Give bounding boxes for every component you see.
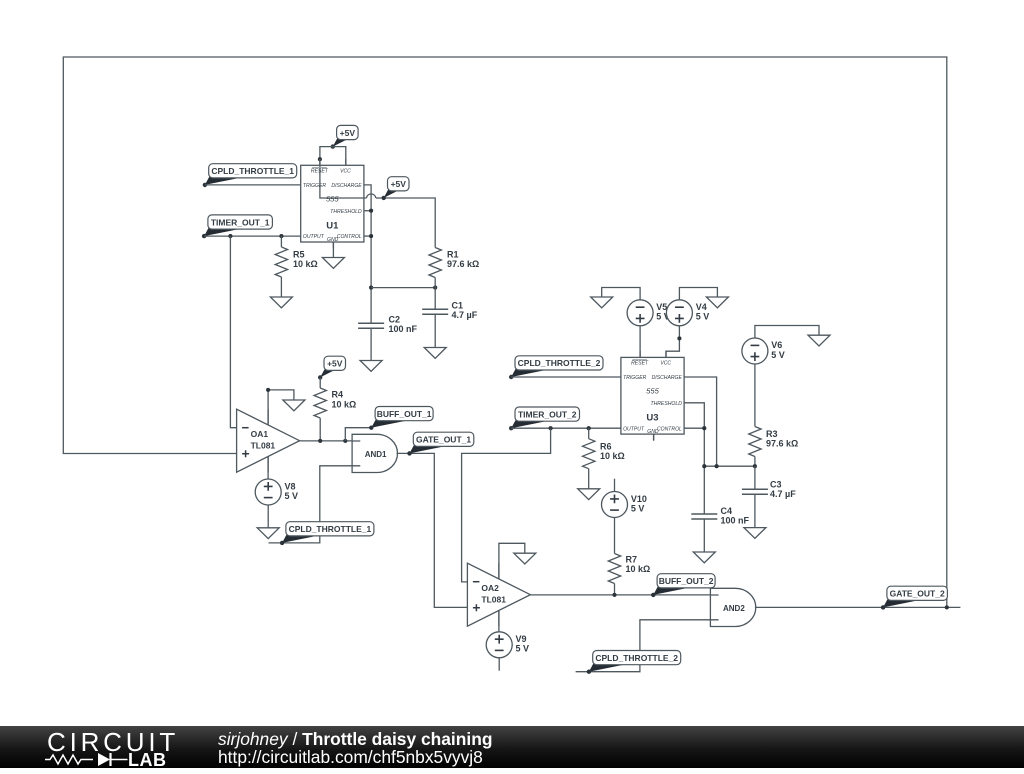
wire V5 to U3 RESET (639, 326, 641, 358)
wire U3 DISCHARGE down (684, 377, 717, 466)
svg-text:OA2: OA2 (481, 583, 499, 593)
svg-text:R7: R7 (626, 554, 638, 564)
wire U1 DISCHARGE to C2 (364, 185, 371, 323)
voltage source V10 (602, 492, 628, 518)
wire CPLD_THROTTLE_1 to AND1 input 2 (269, 466, 353, 543)
flag CPLD_THROTTLE_1 (AND1 input) (280, 522, 374, 545)
svg-text:100 nF: 100 nF (721, 516, 750, 526)
wire junction row (704, 465, 755, 467)
svg-text:4.7 µF: 4.7 µF (770, 489, 796, 499)
flag GATE_OUT_1 (407, 432, 474, 455)
svg-text:97.6 kΩ: 97.6 kΩ (766, 439, 798, 449)
svg-text:TRIGGER: TRIGGER (303, 183, 327, 189)
node gate2 loop junction (945, 605, 949, 609)
svg-text:AND1: AND1 (365, 450, 387, 459)
wire +5V net to R1 top (376, 198, 435, 248)
wire V5 top to ground (602, 288, 640, 300)
resistor R7 (608, 554, 620, 584)
node BUFF_OUT_2 anchor junction (651, 593, 655, 597)
svg-text:OUTPUT: OUTPUT (623, 426, 645, 432)
wire V9 bottom stub (498, 658, 500, 671)
wire OA1 V- to V8 (267, 456, 269, 479)
ground V6 (808, 335, 830, 346)
wire OA2 V- to V9 (498, 610, 500, 631)
label V4 value (696, 302, 710, 322)
wire R6 top (588, 428, 590, 439)
capacitor C1 (422, 309, 448, 314)
wire OA1 output to AND1 (300, 440, 353, 442)
wire U1 THRESHOLD stub (364, 210, 371, 212)
wire C2/R1 link (371, 287, 435, 289)
wire feedback loop GATE_OUT_2 to OA1 + input (63, 57, 947, 607)
svg-text:C1: C1 (452, 300, 464, 310)
svg-text:U3: U3 (646, 412, 658, 423)
wire U3 output net (511, 427, 621, 429)
label V5 value (656, 302, 670, 322)
wire OA2 V+ to ground (499, 543, 525, 579)
svg-text:5 V: 5 V (285, 491, 299, 501)
capacitor C2 (358, 323, 384, 328)
svg-text:5 V: 5 V (696, 312, 710, 322)
svg-text:DISCHARGE: DISCHARGE (331, 183, 362, 189)
label R7 value (626, 554, 651, 574)
svg-text:CONTROL: CONTROL (657, 426, 682, 432)
flag GATE_OUT_2 (881, 586, 948, 609)
flag TIMER_OUT_2 (509, 407, 580, 430)
wire U3 CONTROL stub (684, 427, 704, 429)
svg-text:10 kΩ: 10 kΩ (293, 259, 318, 269)
wire R4 bottom (319, 418, 321, 441)
svg-text:R6: R6 (600, 442, 612, 452)
svg-text:5 V: 5 V (516, 644, 530, 654)
node R5 junction (279, 234, 283, 238)
svg-text:10 kΩ: 10 kΩ (600, 451, 625, 461)
ground U1 GND (322, 258, 344, 269)
svg-text:LAB: LAB (128, 750, 167, 769)
ground C4 (693, 552, 715, 563)
svg-text:DISCHARGE: DISCHARGE (652, 375, 683, 381)
svg-text:CPLD_THROTTLE_2: CPLD_THROTTLE_2 (518, 358, 601, 368)
wire V6 top to ground (755, 326, 819, 339)
label C2 value (389, 315, 418, 335)
wire U3 GND stub (653, 434, 655, 441)
svg-text:+5V: +5V (327, 359, 343, 369)
wire AND2 output GATE_OUT_2 (755, 606, 961, 608)
node V4 wire junction (677, 336, 681, 340)
svg-text:V8: V8 (285, 481, 296, 491)
label C4 value (721, 506, 750, 526)
ground OA1 power (283, 400, 305, 411)
wire V10 to R7 (614, 518, 616, 554)
wire V10 top stub (614, 479, 616, 492)
wire V6 to R3 (754, 364, 756, 427)
wire +5V to R4 (319, 377, 321, 388)
svg-text:CPLD_THROTTLE_2: CPLD_THROTTLE_2 (595, 653, 678, 663)
svg-text:GATE_OUT_1: GATE_OUT_1 (416, 435, 471, 445)
flag CPLD_THROTTLE_2 (AND2 input) (587, 651, 681, 674)
svg-text:4.7 µF: 4.7 µF (452, 310, 478, 320)
wire C2 bottom to ground (370, 328, 372, 360)
wire +5V to U1 VCC (333, 147, 346, 166)
resistor R5 (275, 247, 287, 277)
svg-text:THRESHOLD: THRESHOLD (650, 401, 682, 407)
label R6 value (600, 442, 625, 462)
svg-text:U1: U1 (326, 220, 339, 231)
AND gate AND1 (352, 434, 397, 472)
svg-text:C4: C4 (721, 506, 733, 516)
label R1 value (447, 249, 479, 269)
flag CPLD_THROTTLE_2 (U3 trigger) (509, 356, 603, 379)
CircuitLab logo (44, 727, 224, 774)
svg-text:100 nF: 100 nF (389, 324, 418, 334)
voltage source V6 (742, 338, 768, 364)
wire CPLD_THROTTLE_2 to AND2 input 2 (576, 620, 711, 672)
op-amp OA1 (237, 409, 300, 472)
label R3 value (766, 429, 798, 449)
svg-text:CONTROL: CONTROL (337, 234, 362, 240)
svg-text:C3: C3 (770, 479, 782, 489)
ground C3 (744, 528, 766, 539)
wire R3 bottom (754, 457, 756, 467)
svg-text:OUTPUT: OUTPUT (303, 234, 325, 240)
svg-text:VCC: VCC (660, 361, 671, 367)
flag TIMER_OUT_1 (202, 215, 272, 238)
svg-text:555: 555 (646, 387, 659, 396)
svg-text:V9: V9 (516, 634, 527, 644)
footer bar (0, 726, 1024, 768)
node BUFF_OUT_1 branch (343, 439, 347, 443)
label V9 value (516, 634, 530, 654)
node thresh2-C4 junction (702, 464, 706, 468)
resistor R3 (749, 427, 761, 457)
svg-text:TIMER_OUT_1: TIMER_OUT_1 (211, 217, 270, 227)
op-amp OA2 (467, 563, 530, 626)
svg-text:10 kΩ: 10 kΩ (332, 399, 357, 409)
op-amp U3 555 timer (621, 351, 684, 441)
svg-text:RESET: RESET (311, 169, 329, 175)
wire OA2 output to AND2 (530, 594, 710, 596)
label V6 value (771, 340, 785, 360)
svg-text:TIMER_OUT_2: TIMER_OUT_2 (518, 409, 577, 419)
ground OA2 power (514, 553, 536, 564)
capacitor C3 (742, 489, 768, 494)
node threshold junction (369, 209, 373, 213)
flag BUFF_OUT_1 (369, 407, 433, 430)
svg-text:97.6 kΩ: 97.6 kΩ (447, 259, 479, 269)
voltage source V5 (627, 300, 653, 326)
svg-text:R3: R3 (766, 429, 778, 439)
svg-text:AND2: AND2 (723, 604, 745, 613)
node discharge-C2 junction (369, 286, 373, 290)
node RESET pin junction (318, 157, 322, 161)
node OA1 V+ corner (266, 388, 270, 392)
wire feedback to OA1 - input (230, 236, 236, 428)
node R4-output junction (318, 439, 322, 443)
svg-text:GATE_OUT_2: GATE_OUT_2 (890, 589, 945, 599)
svg-text:V10: V10 (631, 494, 647, 504)
wire U1 CONTROL stub (364, 235, 371, 237)
wire U3 THRESHOLD down to C4 (684, 403, 704, 514)
svg-text:BUFF_OUT_1: BUFF_OUT_1 (377, 409, 432, 419)
svg-text:CPLD_THROTTLE_1: CPLD_THROTTLE_1 (289, 524, 372, 534)
flag BUFF_OUT_2 (651, 574, 715, 597)
svg-text:V5: V5 (656, 302, 667, 312)
label R5 value (293, 249, 318, 269)
flag +5V (discharge net) (382, 177, 410, 200)
svg-text:+5V: +5V (340, 128, 356, 138)
AND gate AND2 (710, 588, 755, 626)
resistor R6 (583, 439, 595, 469)
wire trigger 2 (511, 376, 621, 378)
node GATE_OUT_2 anchor junction (881, 605, 885, 609)
flag CPLD_THROTTLE_1 (U1 trigger) (203, 164, 297, 187)
label C1 value (452, 300, 478, 320)
voltage source V4 (666, 300, 692, 326)
node R6 junction (587, 426, 591, 430)
ground R5 (270, 297, 292, 308)
node control junction (369, 234, 373, 238)
ground C1 (424, 348, 446, 359)
ground C2 (360, 361, 382, 372)
voltage source V8 (255, 479, 281, 505)
wire R5 bottom to ground (280, 277, 282, 297)
label V10 value (631, 494, 647, 514)
wire C3 top (754, 466, 756, 489)
wire timer2 to OA2 - input (462, 428, 551, 582)
label V8 value (285, 481, 299, 501)
resistor R1 (429, 248, 441, 278)
wire V8 to ground (267, 505, 269, 528)
node R1-C1 junction (433, 286, 437, 290)
wire hop over discharge wire (366, 194, 376, 198)
wire V4 to U3 VCC (666, 326, 679, 358)
wire C1 bottom to ground (434, 314, 436, 347)
flag +5V (R4) (318, 356, 346, 379)
resistor R4 (314, 388, 326, 418)
svg-text:TRIGGER: TRIGGER (623, 375, 647, 381)
svg-text:V4: V4 (696, 302, 707, 312)
ground V4 (706, 297, 728, 308)
wire AND1 output / GATE_OUT_1 to OA2 + input (397, 453, 468, 607)
wire R5 top (280, 236, 282, 247)
wire C4 bottom to ground (703, 519, 705, 552)
label C3 value (770, 479, 796, 499)
svg-text:TL081: TL081 (251, 441, 276, 451)
svg-text:R4: R4 (332, 390, 344, 400)
flag +5V (above U1) (331, 125, 359, 148)
wire R7 bottom (614, 584, 616, 595)
capacitor C4 (691, 514, 717, 519)
svg-text:R5: R5 (293, 249, 305, 259)
node GATE_OUT_1 anchor junction (407, 451, 411, 455)
wire R6 bottom to ground (588, 469, 590, 489)
node R3-C3 junction (753, 464, 757, 468)
footer credit text (218, 730, 492, 767)
svg-text:5 V: 5 V (631, 503, 645, 513)
label R4 value (332, 390, 357, 410)
wire OA1 V+ to ground (268, 390, 294, 425)
svg-text:TL081: TL081 (481, 595, 506, 605)
ground R6 (578, 489, 600, 500)
svg-text:CPLD_THROTTLE_1: CPLD_THROTTLE_1 (211, 166, 294, 176)
svg-text:BUFF_OUT_2: BUFF_OUT_2 (659, 576, 714, 586)
wire U1 output net (204, 235, 301, 237)
svg-text:V6: V6 (771, 340, 782, 350)
svg-text:C2: C2 (389, 315, 401, 325)
ground V5 (591, 297, 613, 308)
wire C3 bottom to ground (754, 494, 756, 527)
op-amp U1 555 timer (301, 159, 364, 249)
svg-text:OA1: OA1 (251, 429, 269, 439)
svg-text:VCC: VCC (340, 169, 351, 175)
node R7-output junction (612, 593, 616, 597)
voltage source V9 (486, 632, 512, 658)
wire +5V down through U1 RESET to DISCHARGE net (320, 147, 367, 198)
wire R1 bottom to C1 (434, 278, 436, 310)
node control2 junction (702, 426, 706, 430)
svg-text:RESET: RESET (631, 361, 649, 367)
svg-text:5 V: 5 V (771, 350, 785, 360)
wire branch to BUFF_OUT_1 (345, 428, 371, 441)
svg-text:THRESHOLD: THRESHOLD (330, 209, 362, 215)
svg-text:R1: R1 (447, 249, 459, 259)
wire U1 GND pin to ground (332, 242, 334, 258)
node timer2 feedback junction (549, 426, 553, 430)
node timer1 feedback junction (228, 234, 232, 238)
ground V8 (257, 528, 279, 539)
wire V4 top to ground (679, 288, 717, 300)
svg-text:10 kΩ: 10 kΩ (626, 564, 651, 574)
svg-text:+5V: +5V (391, 179, 407, 189)
node discharge2 junction (715, 464, 719, 468)
svg-text:555: 555 (326, 195, 339, 204)
wire trigger 1 (205, 184, 301, 186)
